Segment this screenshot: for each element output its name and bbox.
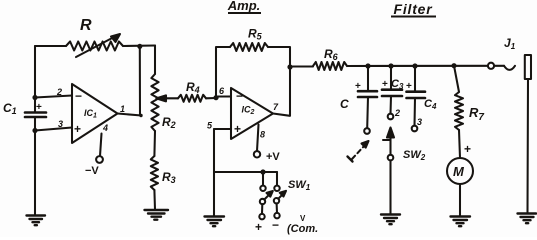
svg-text:C4: C4 (424, 98, 437, 111)
svg-text:M: M (453, 164, 465, 179)
svg-text:−V: −V (85, 165, 99, 177)
svg-text:R5: R5 (248, 27, 263, 42)
svg-text:R: R (80, 17, 92, 34)
svg-text:C1: C1 (3, 101, 17, 116)
svg-text:−: − (236, 89, 243, 103)
svg-text:7: 7 (273, 102, 279, 112)
svg-text:IC1: IC1 (84, 108, 97, 120)
svg-text:V: V (300, 214, 306, 223)
svg-text:1: 1 (120, 104, 125, 114)
svg-text:−: − (75, 89, 82, 103)
svg-text:−: − (272, 218, 279, 232)
svg-text:5: 5 (207, 121, 213, 131)
svg-text:+: + (36, 102, 42, 113)
svg-text:Filter: Filter (393, 1, 433, 17)
svg-text:+: + (255, 220, 262, 234)
svg-text:IC2: IC2 (242, 105, 255, 117)
svg-text:C3: C3 (391, 78, 404, 91)
svg-text:3: 3 (58, 119, 63, 129)
svg-text:3: 3 (417, 117, 422, 127)
svg-text:2: 2 (394, 108, 400, 118)
svg-text:R4: R4 (186, 80, 200, 95)
svg-text:SW2: SW2 (403, 149, 426, 162)
svg-text:J1: J1 (504, 36, 516, 51)
svg-text:C: C (340, 97, 349, 111)
svg-text:+V: +V (266, 151, 280, 163)
svg-text:+: + (234, 122, 241, 136)
svg-text:+: + (382, 79, 388, 90)
svg-text:2: 2 (56, 87, 62, 97)
svg-text:R2: R2 (162, 115, 176, 130)
svg-text:+: + (355, 81, 361, 92)
svg-text:+: + (74, 122, 81, 136)
svg-text:+: + (406, 81, 412, 92)
svg-text:SW1: SW1 (288, 179, 311, 192)
svg-text:R7: R7 (469, 105, 484, 123)
svg-text:8: 8 (260, 130, 265, 140)
svg-text:R3: R3 (162, 170, 176, 185)
svg-text:Amp.: Amp. (227, 0, 261, 13)
svg-text:R6: R6 (324, 47, 339, 62)
svg-text:4: 4 (102, 123, 108, 133)
svg-text:(Com.: (Com. (287, 223, 318, 235)
svg-text:+: + (464, 142, 471, 156)
svg-text:6: 6 (219, 86, 225, 96)
